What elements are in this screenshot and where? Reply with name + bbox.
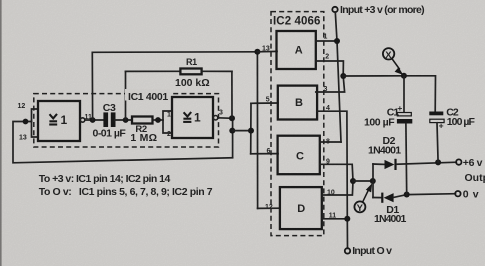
node: C3/R2/R1-left junction [123,117,129,123]
capacitor C2 [429,106,475,162]
terminal: Input +3v [332,4,424,16]
capacitor C1 [364,76,412,195]
diode D1 [373,193,407,225]
resistor R2 [130,117,157,144]
wire: switch C pin 9 stub to Y [320,164,353,181]
terminal: Input 0v [345,245,392,257]
IC1 dashed outline [34,94,219,147]
node Y circled label with arrow [354,183,372,214]
wire: switch A pin 2 stub to X net [316,61,344,76]
wire: C3 to R2 [115,119,132,121]
inverter bubble pin 11 [80,118,84,122]
node: Y diode junction [370,178,376,184]
node X circled label with arrow [383,48,403,75]
IC1 label [125,89,170,101]
switch D (IC2) [280,187,322,229]
wire: switch D pin 10 stub to Y [322,181,353,195]
wire: switch C control stub pin 6 [251,153,278,155]
capacitor C3 [93,102,127,140]
inverter bubble pin 3 [213,116,217,120]
node: R2 right junction [155,117,161,123]
wire: switch C pin 8 stub [320,141,341,143]
node: gate1 input junction [23,119,29,125]
switch B (IC2) [278,86,317,120]
IC2 label [273,13,321,26]
node: B/C control tap junction [229,128,235,134]
wire: feedback from gate2 output to gate1 inputs (bottom loop) [231,118,234,157]
gate U1a (IC1 4001 NOR) [38,101,92,141]
switch A (IC2) [277,31,316,69]
wire: R2 to gate2 inputs [153,119,164,121]
wire: X rail to C1 and C2 [343,76,435,113]
resistor R1 [126,57,233,120]
wire: switch B pin 4 stub down to 0v net [317,111,347,248]
diode D2 [368,135,401,170]
wire: gate1 input bar pins 12 13 [32,109,39,137]
node: gate1 output junction [90,117,96,123]
gate U1b (IC1 4001 NOR) [172,97,223,138]
wire: gate1 output to C3 [85,119,104,121]
scan left edge artifact [0,0,2,266]
terminal: +6v output [456,157,483,169]
wire: A/D control vertical [256,52,258,209]
wire: switch D control stub pin 12 [258,207,280,209]
terminal: 0v output [455,189,479,201]
wire: switch B control stub pin 5 [251,102,278,104]
wire: 0v rail [407,193,456,196]
wire: gate2 output to B/C control vertical [232,130,251,132]
node: C2 bottom junction [435,159,441,165]
wire: +3v input down to pin 1 and pin 8 [335,12,341,142]
node: C1 bottom junction [404,192,410,198]
wire: switch A control stub pin 13 [257,50,277,52]
wire: switch D pin 11 stub to 0v input [322,218,348,220]
wire: Y link [353,180,373,182]
wire: gate2 output to junction [218,117,232,120]
node: A control junction [254,49,260,55]
IC2 dashed outline [271,12,324,236]
wire: B/C control vertical [250,103,252,154]
node: X net start junction [340,73,346,79]
wire: gate1 output up to A/D control rail [92,52,257,120]
wire: Y bar between diode lines [372,164,374,198]
node: gate2 output junction [229,115,235,121]
paper grain [0,0,1,1]
wire: gate2 input bar pins 1 2 [163,111,172,133]
node: pin 11 junction [344,216,350,222]
wire: switch A pin 1 stub [316,40,337,42]
node: pin9/pin10 Y junction [350,178,356,184]
switch C (IC2) [278,136,320,175]
wire: switch B pin 3 stub to X net [316,76,345,92]
wire: +6v rail [397,162,457,164]
node: X junction [401,73,407,79]
node: pin1 junction [334,38,340,44]
node: B/C feed junction [248,128,254,134]
